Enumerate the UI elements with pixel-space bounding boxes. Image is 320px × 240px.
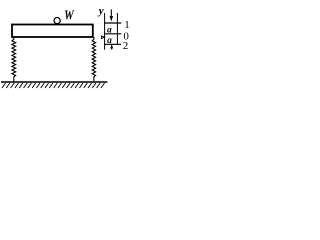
- plate (bar) on springs: [12, 25, 93, 38]
- svg-text:y: y: [97, 5, 104, 17]
- dimension extension line left: [104, 13, 106, 50]
- svg-text:2: 2: [123, 40, 129, 52]
- y axis shaft: [110, 9, 112, 17]
- y axis arrowhead (down): [110, 16, 114, 21]
- spring left: [12, 37, 16, 82]
- marker triangle at level 0: [101, 36, 104, 39]
- ground hatching: [2, 83, 105, 88]
- tick level 0: [104, 33, 121, 35]
- up arrow below level 2 tick: [111, 45, 113, 50]
- spring right: [92, 37, 95, 82]
- tick level 2: [104, 43, 121, 45]
- svg-text:W: W: [64, 9, 75, 24]
- ball W: [54, 18, 60, 24]
- tick level 1: [104, 22, 121, 24]
- ground line: [1, 81, 107, 83]
- dimension extension line right: [116, 13, 118, 44]
- svg-text:a: a: [107, 26, 112, 36]
